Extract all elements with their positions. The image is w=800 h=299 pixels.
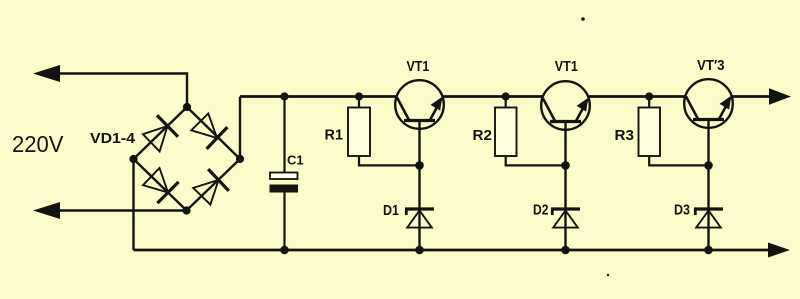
svg-text:R1: R1	[325, 128, 344, 144]
svg-text:D3: D3	[674, 203, 690, 219]
svg-text:VT′3: VT′3	[697, 57, 725, 74]
svg-text:D1: D1	[383, 203, 399, 219]
svg-text:R2: R2	[473, 128, 493, 144]
svg-text:R3: R3	[615, 128, 635, 144]
svg-text:VD1-4: VD1-4	[90, 131, 135, 147]
svg-text:VT1: VT1	[407, 58, 430, 75]
svg-text:C1: C1	[287, 152, 304, 167]
svg-text:D2: D2	[533, 203, 549, 219]
svg-text:VT1: VT1	[555, 58, 578, 75]
svg-text:220V: 220V	[12, 131, 64, 157]
